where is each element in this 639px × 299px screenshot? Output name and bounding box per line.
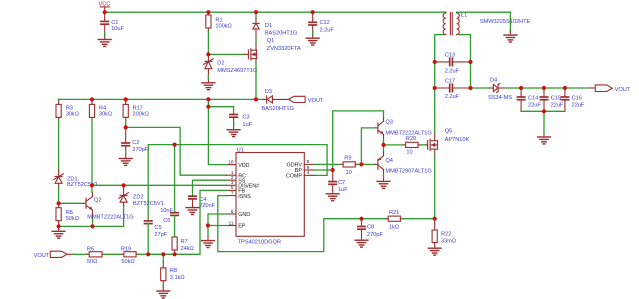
wire R1 to D2 node — [207, 31, 209, 54]
svg-text:C16: C16 — [572, 95, 582, 101]
ground under C4 — [186, 208, 199, 215]
ground under GND/EP — [207, 226, 209, 237]
pin 2 SS — [226, 179, 236, 181]
svg-text:D2: D2 — [217, 61, 224, 67]
node R5/ground junction — [57, 224, 61, 228]
wire C6 to R7 — [174, 215, 176, 237]
wire GND pin — [208, 214, 226, 226]
pin 8 GDRV — [304, 163, 314, 165]
svg-text:R20: R20 — [406, 136, 416, 142]
svg-text:33mΩ: 33mΩ — [441, 239, 456, 245]
svg-text:MMBT2222ALT1G: MMBT2222ALT1G — [87, 214, 133, 220]
wire VDD pin — [208, 99, 226, 164]
wire output caps ground bus — [521, 110, 565, 112]
node C15 junction — [542, 86, 546, 90]
wire output bus — [504, 87, 590, 89]
svg-text:MMSZ4697T1G: MMSZ4697T1G — [217, 68, 257, 74]
ground secondary — [504, 35, 517, 42]
svg-text:COMP: COMP — [286, 174, 303, 180]
svg-text:D1: D1 — [265, 23, 272, 29]
node BP/C7 junction — [331, 168, 335, 172]
node VDD/C3 tap junction — [206, 105, 210, 109]
svg-text:270pF: 270pF — [132, 147, 148, 153]
svg-text:270pF: 270pF — [367, 232, 383, 238]
svg-text:SMW3225S102HTE: SMW3225S102HTE — [480, 19, 531, 25]
pin 3 DIS/EN# — [226, 184, 236, 186]
svg-text:22uF: 22uF — [551, 103, 564, 109]
node bus/R1 junction — [206, 10, 210, 14]
capacitor C8 270pF — [361, 219, 363, 227]
pin 4 COMP — [304, 174, 314, 176]
pin 9 BP — [304, 169, 314, 171]
wire ground stem — [543, 111, 545, 133]
svg-text:200kΩ: 200kΩ — [133, 112, 149, 118]
node C8 junction — [359, 217, 363, 221]
pin 6 GND — [226, 213, 236, 215]
wire C5 branch — [147, 145, 149, 221]
wire primary bottom to drain rail — [435, 35, 443, 134]
svg-text:AP7N10K: AP7N10K — [445, 137, 470, 143]
svg-text:MMBT2907ALT1G: MMBT2907ALT1G — [385, 169, 431, 175]
svg-text:24kΩ: 24kΩ — [181, 246, 194, 252]
svg-text:1kΩ: 1kΩ — [389, 224, 399, 230]
svg-text:10: 10 — [228, 159, 234, 164]
capacitor C15 22uF — [543, 88, 545, 97]
svg-text:Q2: Q2 — [94, 198, 102, 204]
wire SS pin to C4 — [193, 180, 227, 196]
svg-text:VOUT: VOUT — [308, 98, 324, 104]
svg-text:50kΩ: 50kΩ — [66, 216, 79, 222]
capacitor C12 2.2uF — [312, 12, 314, 22]
svg-text:220nF: 220nF — [199, 203, 215, 209]
svg-text:10nF: 10nF — [160, 208, 173, 214]
resistor R21 1k — [386, 218, 389, 220]
node C16 junction — [563, 86, 567, 90]
zener diode D2 MMSZ4697T1G — [207, 54, 209, 61]
node C14 junction — [519, 86, 523, 90]
svg-text:L1: L1 — [461, 13, 467, 19]
node VCC/C1 junction — [103, 10, 107, 14]
node ZD1/R5/Q2-base junction — [57, 201, 61, 205]
wire Q5 source — [434, 155, 436, 219]
diode D1 BAS20HT1G — [255, 12, 257, 18]
wire VDD rail — [59, 98, 263, 100]
resistor R6 50 — [87, 253, 89, 255]
wire ZD1 to node — [58, 187, 60, 203]
wire secondary top to ground — [457, 12, 511, 31]
wire Q2 emitter net — [59, 206, 124, 227]
svg-text:C6: C6 — [163, 218, 170, 224]
resistor R20 10 — [384, 144, 404, 146]
ground under C1 — [98, 40, 111, 47]
transistor Q2 MMBT2222ALT1G (NPN) — [84, 202, 87, 204]
capacitor C13 2.2uF — [435, 61, 450, 63]
node R17 top junction — [124, 97, 128, 101]
svg-text:7: 7 — [231, 190, 234, 195]
capacitor C1 10uF — [104, 12, 106, 21]
wire FB pin — [200, 190, 226, 254]
svg-text:D3: D3 — [265, 89, 272, 95]
svg-text:D4: D4 — [490, 77, 497, 83]
wire R6 to R19 — [105, 253, 122, 255]
resistor R19 50k — [122, 253, 124, 255]
svg-text:C7: C7 — [338, 180, 345, 186]
svg-text:Q4: Q4 — [385, 158, 393, 164]
svg-text:11: 11 — [229, 220, 234, 225]
node Q2 emitter junction — [90, 224, 94, 228]
node R4 top junction — [90, 97, 94, 101]
resistor R1 100k — [207, 12, 209, 15]
wire R9 to base node — [358, 163, 375, 165]
transistor Q1 ZVN3320FTA (NMOS) — [245, 53, 249, 55]
capacitor C6 10nF — [171, 212, 178, 214]
svg-text:EP: EP — [238, 224, 246, 230]
ground under C2 — [119, 159, 132, 166]
svg-text:C14: C14 — [528, 95, 538, 101]
svg-text:Q3: Q3 — [385, 119, 393, 125]
svg-text:R3: R3 — [66, 105, 73, 111]
node emitters/R20 junction — [381, 143, 385, 147]
node R8 junction — [161, 252, 165, 256]
node VDD column junction — [206, 97, 210, 101]
wire secondary bottom — [460, 35, 471, 88]
svg-text:4: 4 — [307, 170, 310, 175]
capacitor C16 22uF — [564, 88, 566, 97]
svg-text:C8: C8 — [367, 225, 374, 231]
svg-text:VOUT: VOUT — [34, 253, 50, 259]
wire Q2 base — [59, 202, 84, 204]
svg-text:6: 6 — [231, 209, 234, 214]
pin 11 EP — [226, 225, 236, 227]
svg-text:R21: R21 — [389, 210, 399, 216]
op-amp U1 TPS40210DGQR body — [236, 153, 304, 237]
wire VOUT to R6 — [73, 253, 87, 255]
svg-text:C1: C1 — [111, 20, 118, 26]
capacitor C7 1uF — [332, 170, 334, 182]
svg-text:R17: R17 — [133, 105, 143, 111]
port VOUT top right — [595, 85, 612, 92]
zener diode ZD2 BZT52C5V1 — [123, 185, 125, 195]
ground under C3 — [227, 130, 240, 137]
svg-text:C17: C17 — [445, 78, 455, 84]
transistor Q4 MMBT2907ALT1G (PNP) — [375, 163, 378, 165]
transformer L1 secondary winding — [457, 13, 460, 35]
svg-text:R19: R19 — [121, 247, 131, 253]
svg-text:R6: R6 — [87, 247, 94, 253]
wire COMP compensation line — [148, 145, 327, 176]
capacitor C2 270pF — [125, 127, 127, 143]
svg-text:C5: C5 — [154, 225, 161, 231]
zener diode ZD1 BZT52C5V1 — [58, 170, 60, 177]
ground under D2 — [202, 83, 215, 90]
pin 10 VDD — [226, 164, 236, 166]
svg-text:100kΩ: 100kΩ — [215, 24, 231, 30]
svg-text:10: 10 — [346, 170, 352, 176]
node DIS net at R4 junction — [90, 183, 94, 187]
wire Q3 base branch — [361, 128, 375, 164]
wire R21 line — [324, 218, 386, 220]
capacitor C14 22uF — [520, 88, 522, 97]
svg-text:TPS40210DGQR: TPS40210DGQR — [238, 240, 281, 246]
svg-text:9: 9 — [307, 165, 310, 170]
svg-text:3.1kΩ: 3.1kΩ — [170, 275, 185, 281]
node ground bus junction — [542, 109, 546, 113]
svg-text:R4: R4 — [99, 105, 106, 111]
resistor R17 200k — [125, 99, 127, 101]
wire ISNS pin to R21 line — [218, 196, 324, 252]
svg-text:22uF: 22uF — [528, 103, 541, 109]
wire C5 to FB bus — [147, 224, 149, 255]
node C17 left junction — [433, 86, 437, 90]
transformer L1 primary winding — [443, 13, 446, 35]
svg-text:22uF: 22uF — [572, 103, 585, 109]
svg-text:R5: R5 — [66, 210, 73, 216]
node R17/C2/RC junction — [124, 125, 128, 129]
svg-text:2.2uF: 2.2uF — [445, 94, 460, 100]
wire R4 to Q2 collector — [91, 120, 93, 192]
ground under C7 — [326, 194, 339, 201]
node Q3/Q4 base junction — [359, 162, 363, 166]
node C5/FB bus junction — [146, 252, 150, 256]
svg-text:30kΩ: 30kΩ — [66, 112, 79, 118]
svg-text:50Ω: 50Ω — [87, 259, 97, 265]
wire R3 to ZD1 — [58, 120, 60, 169]
ground under C12 — [306, 38, 319, 45]
svg-text:R9: R9 — [344, 156, 351, 162]
transformer L1 core — [449, 12, 451, 34]
wire Q1 gate — [208, 53, 244, 55]
resistor R4 30k — [91, 99, 93, 101]
resistor R5 50k — [58, 203, 60, 207]
svg-text:VDD: VDD — [238, 163, 249, 169]
capacitor C3 1uF — [230, 114, 237, 116]
node C13 left junction — [433, 60, 437, 64]
wire Q1 source to VDD rail — [255, 63, 257, 99]
svg-text:C15: C15 — [551, 95, 561, 101]
transistor Q5 AP7N10K (NMOS) — [426, 144, 428, 146]
svg-text:GND: GND — [238, 212, 250, 218]
wire EP pin — [208, 225, 226, 227]
wire FB bus — [139, 253, 201, 255]
wire top VCC bus — [105, 11, 446, 13]
ground under R22 — [428, 248, 441, 255]
svg-text:C13: C13 — [445, 53, 455, 59]
svg-text:ZD2: ZD2 — [133, 194, 144, 200]
node GND/EP junction — [206, 223, 210, 227]
node R1/D2/Q1-gate junction — [206, 52, 210, 56]
svg-text:C2: C2 — [132, 140, 139, 146]
pin 5 FB — [226, 189, 236, 191]
pin 7 ISNS — [226, 195, 236, 197]
diode D4 SS34-MS — [471, 87, 490, 89]
node Q1 source junction — [254, 97, 258, 101]
svg-text:SS34-MS: SS34-MS — [488, 95, 512, 101]
svg-text:U1: U1 — [237, 147, 244, 153]
wire GDRV to R9 — [314, 163, 341, 165]
node bus/D1 junction — [254, 10, 258, 14]
diode D3 BAS20HT1G — [263, 98, 267, 100]
node ZD2/DIS junction — [122, 183, 126, 187]
ground under output caps — [538, 137, 551, 144]
svg-text:50kΩ: 50kΩ — [121, 259, 134, 265]
resistor R22 33m — [434, 219, 436, 230]
svg-text:1uF: 1uF — [338, 187, 348, 193]
svg-text:R7: R7 — [181, 239, 188, 245]
transistor Q3 MMBT2222ALT1G (NPN) — [375, 127, 378, 129]
pin 1 RC — [226, 174, 236, 176]
ground under R5 — [58, 226, 60, 231]
ground under R8 — [157, 291, 170, 298]
svg-text:BAS20HT1G: BAS20HT1G — [261, 106, 293, 112]
svg-text:VOUT: VOUT — [615, 87, 631, 93]
ground under Q4 — [377, 181, 390, 188]
svg-text:8: 8 — [307, 159, 310, 164]
port VOUT middle — [289, 96, 306, 102]
node C6 tap junction — [173, 143, 177, 147]
svg-text:2.2uF: 2.2uF — [320, 27, 335, 33]
svg-text:ZVN3320FTA: ZVN3320FTA — [267, 46, 301, 52]
capacitor C17 2.2uF — [435, 87, 450, 89]
svg-text:2.2uF: 2.2uF — [445, 68, 460, 74]
svg-text:30kΩ: 30kΩ — [99, 112, 112, 118]
resistor R3 30k — [58, 99, 60, 101]
resistor R7 24k — [172, 237, 177, 250]
capacitor C4 220nF — [189, 195, 196, 197]
wire R17 to C2 node — [125, 120, 127, 127]
node C17/D4 junction — [468, 86, 472, 90]
svg-text:10: 10 — [406, 150, 412, 156]
resistor R9 10 — [341, 163, 343, 165]
svg-text:27pF: 27pF — [154, 232, 167, 238]
wire RC net — [126, 127, 227, 175]
svg-text:Q5: Q5 — [445, 129, 453, 135]
wire BP pin — [314, 169, 333, 171]
node R21/R22 junction — [433, 217, 437, 221]
svg-text:C3: C3 — [242, 115, 249, 121]
svg-text:C12: C12 — [320, 20, 330, 26]
svg-text:R8: R8 — [170, 268, 177, 274]
node R7 junction — [173, 252, 177, 256]
wire C6 branch — [174, 145, 176, 213]
ground under C8 — [355, 240, 368, 247]
svg-text:BAS20HT1G: BAS20HT1G — [265, 30, 297, 36]
wire R21 to R22 node — [403, 218, 435, 220]
wire BP to Q3 collector — [333, 111, 384, 170]
wire DIS/EN# net — [92, 184, 226, 186]
svg-text:Q1: Q1 — [267, 38, 275, 44]
svg-text:R22: R22 — [441, 231, 451, 237]
svg-text:1uF: 1uF — [242, 122, 252, 128]
svg-text:ISNS: ISNS — [238, 194, 251, 200]
wire C3 branch — [208, 107, 233, 115]
node bus/C12 junction — [311, 10, 315, 14]
node C13 right junction — [468, 60, 472, 64]
svg-text:10uF: 10uF — [111, 26, 124, 32]
capacitor C5 27pF — [145, 220, 152, 222]
resistor R8 3.1k — [162, 254, 164, 262]
